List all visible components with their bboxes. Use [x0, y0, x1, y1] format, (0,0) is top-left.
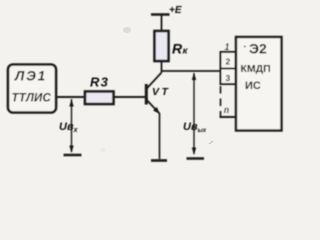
wire box to R3	[56, 96, 85, 98]
svg-text:+Е: +Е	[169, 5, 182, 16]
svg-text:Э2: Э2	[249, 41, 267, 57]
ground (input)	[64, 154, 82, 157]
svg-text:1: 1	[225, 42, 230, 52]
emitter wire down	[159, 113, 161, 159]
svg-text:КМДП: КМДП	[241, 63, 271, 75]
collector node wire to IC	[162, 70, 221, 72]
ground (emitter)	[151, 159, 167, 162]
ground (output)	[187, 157, 205, 160]
svg-text:n: n	[224, 105, 229, 115]
pin cell 2	[221, 52, 236, 69]
Uвх arrow up	[69, 99, 73, 107]
CMOS IC box Э2 КМДП ИС	[236, 37, 282, 131]
output branch Uвых	[193, 73, 195, 154]
pin cell 3	[221, 69, 236, 85]
svg-text:ТТЛИС: ТТЛИС	[12, 93, 52, 105]
svg-text:3: 3	[226, 73, 231, 83]
pin cell n (dashed)	[220, 86, 222, 116]
logic element box ЛЭ1 ТТЛИС	[8, 65, 56, 113]
resistor Rк	[155, 31, 169, 61]
svg-text:ЛЭ1: ЛЭ1	[14, 69, 47, 84]
resistor R3	[85, 92, 114, 105]
Uвх arrow down	[69, 146, 73, 154]
transistor VT	[146, 73, 170, 114]
node input branch	[71, 99, 73, 152]
svg-text:2: 2	[226, 57, 231, 67]
+E terminal bar	[151, 13, 170, 15]
svg-text:R3: R3	[90, 75, 109, 90]
wire Rк to +E	[161, 15, 163, 32]
svg-text:ИС: ИС	[245, 80, 261, 92]
wire R3 to base	[114, 96, 146, 98]
collector wire up	[161, 61, 163, 73]
svg-text:VT: VT	[152, 86, 170, 98]
